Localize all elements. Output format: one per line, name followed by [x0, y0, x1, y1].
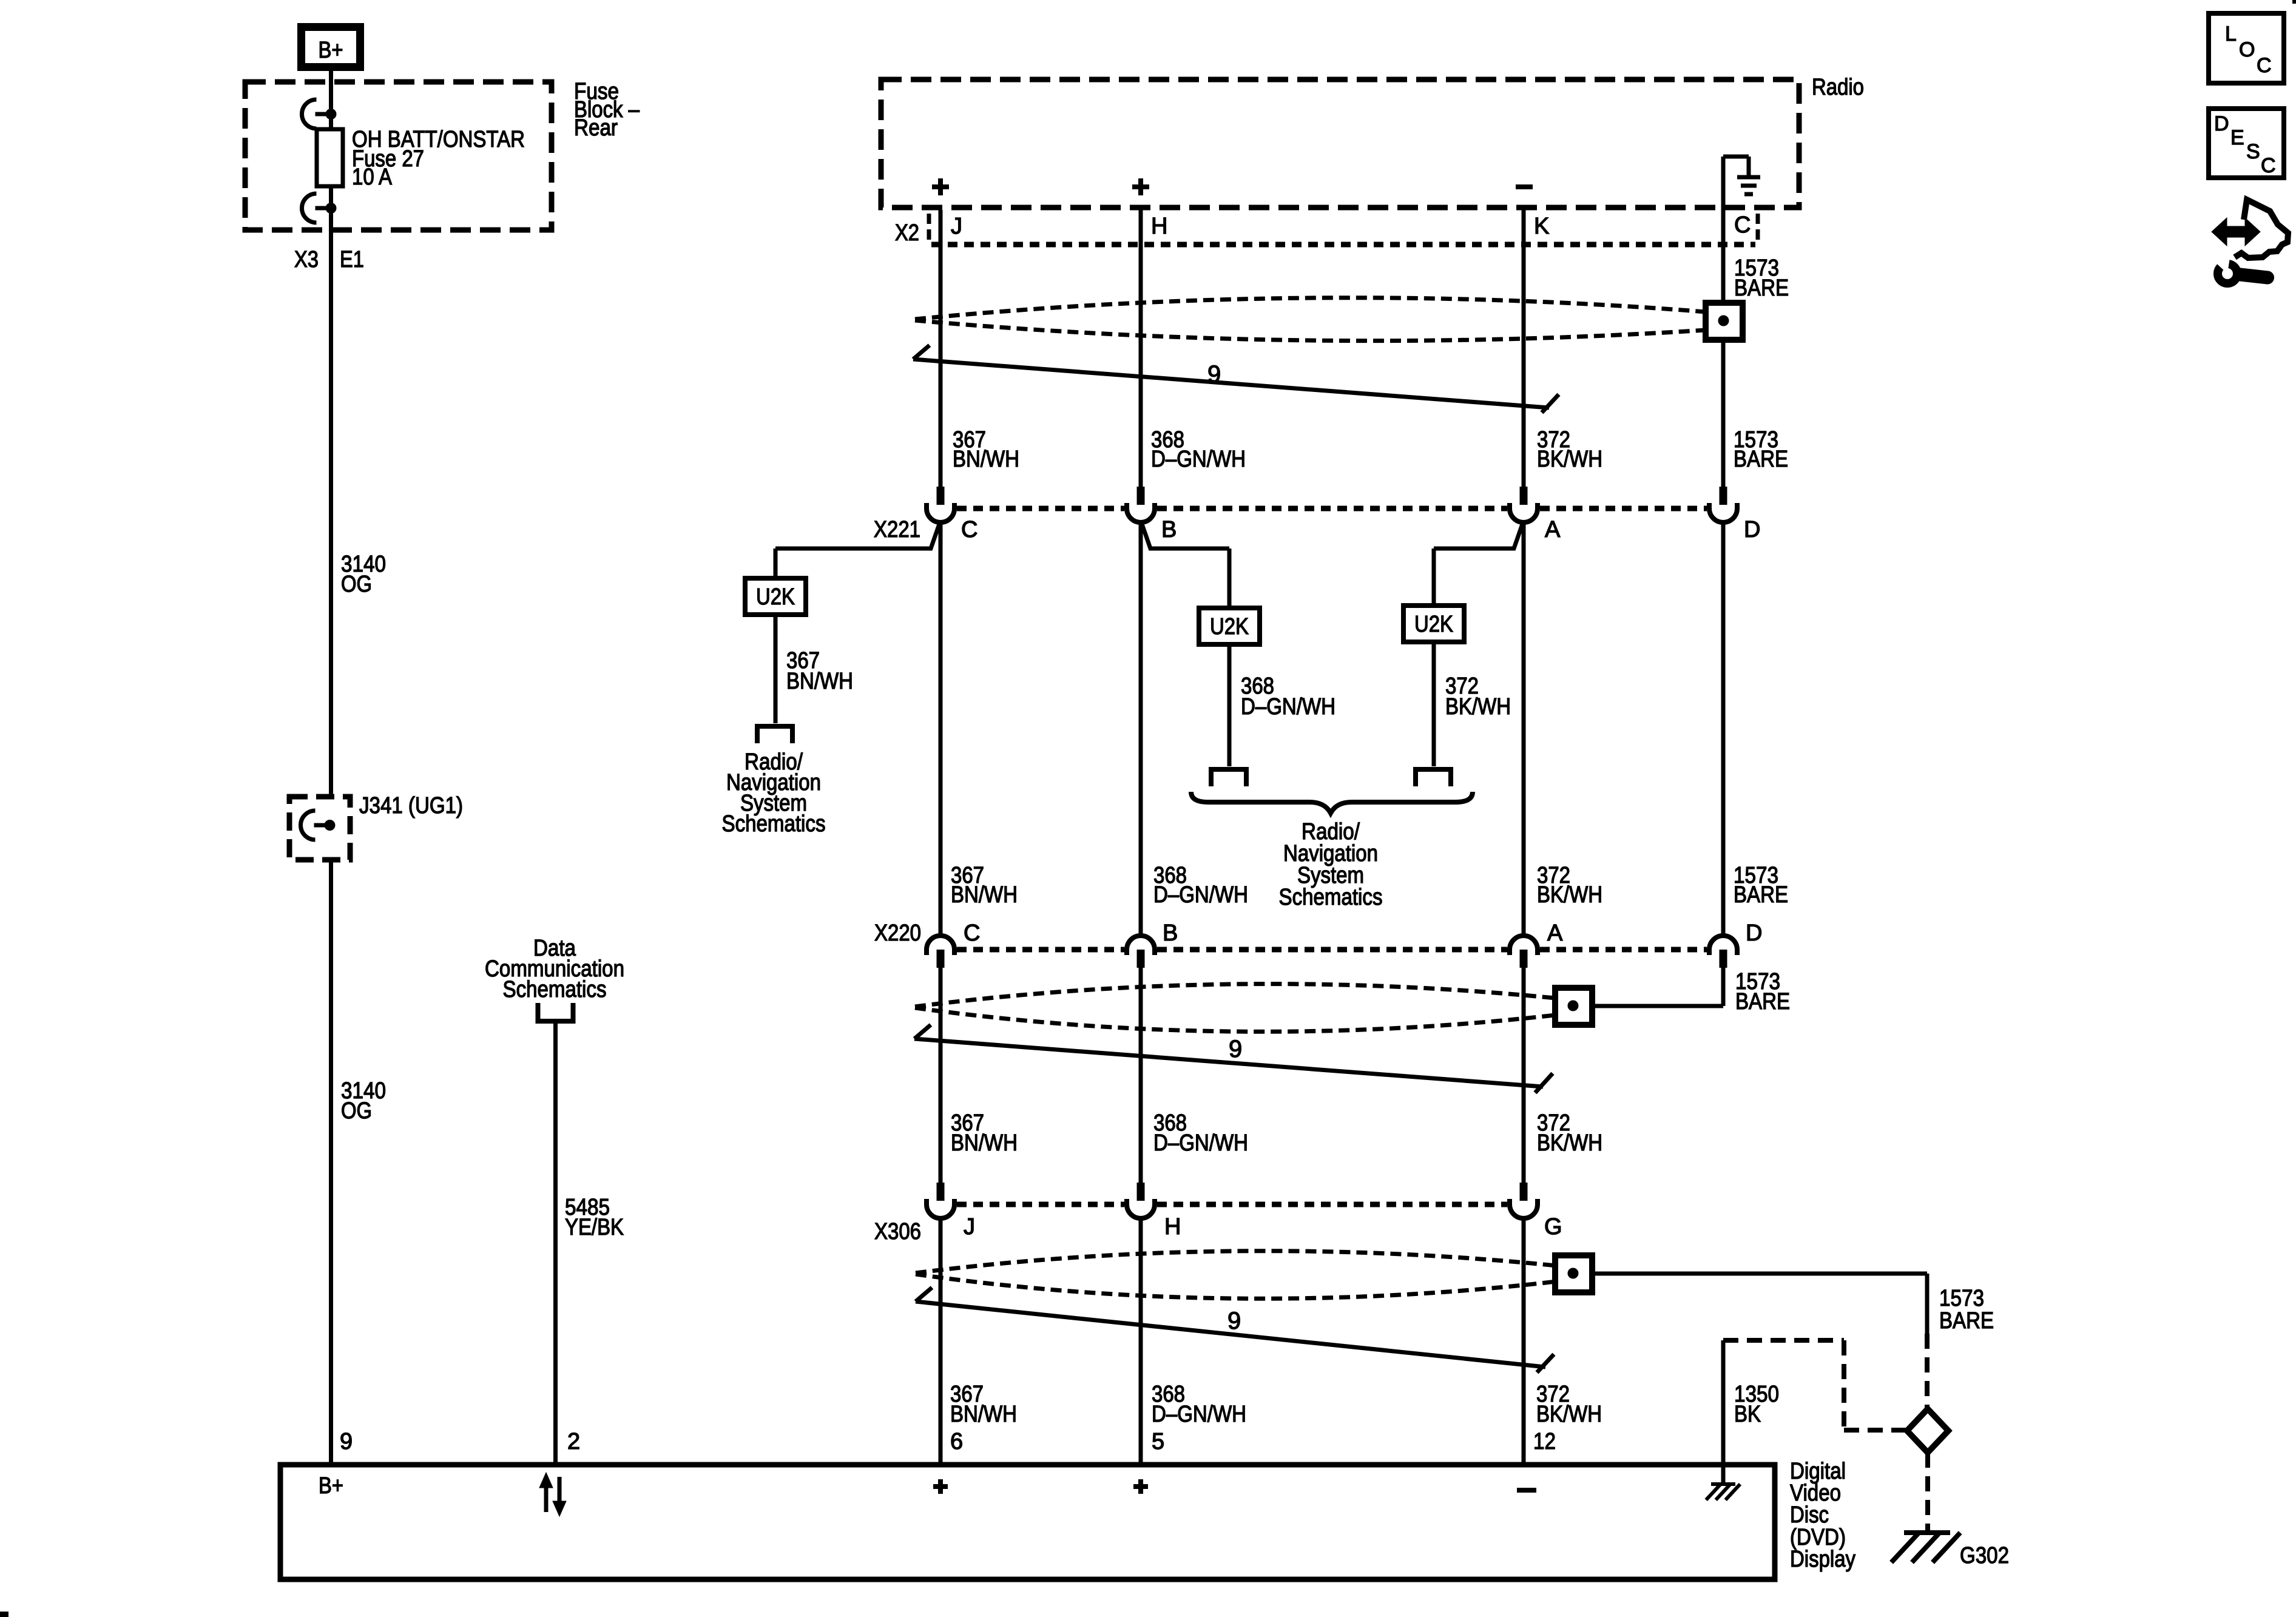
svg-text:B+: B+ [319, 38, 343, 63]
svg-text:BK/WH: BK/WH [1537, 882, 1602, 908]
svg-text:BK: BK [1734, 1402, 1761, 1427]
svg-text:OG: OG [341, 572, 372, 597]
svg-text:B: B [1163, 920, 1178, 946]
svg-text:1573: 1573 [1939, 1286, 1984, 1311]
svg-text:OG: OG [341, 1098, 372, 1124]
svg-text:C: C [964, 920, 980, 946]
svg-text:BN/WH: BN/WH [951, 1130, 1018, 1156]
svg-text:J: J [951, 214, 962, 239]
svg-text:B: B [1161, 517, 1177, 542]
svg-text:D: D [1746, 920, 1762, 946]
svg-text:B+: B+ [319, 1473, 343, 1499]
svg-text:9: 9 [340, 1429, 353, 1454]
svg-text:D–GN/WH: D–GN/WH [1152, 1402, 1246, 1427]
svg-text:BK/WH: BK/WH [1537, 1130, 1602, 1156]
svg-text:U2K: U2K [756, 584, 795, 610]
svg-text:BK/WH: BK/WH [1537, 447, 1602, 472]
svg-text:BARE: BARE [1734, 447, 1788, 472]
svg-text:E: E [2230, 126, 2244, 149]
svg-text:YE/BK: YE/BK [565, 1215, 624, 1240]
svg-text:X220: X220 [874, 920, 921, 946]
svg-text:E1: E1 [340, 247, 364, 272]
svg-text:6: 6 [950, 1429, 963, 1454]
svg-text:9: 9 [1229, 1036, 1242, 1062]
svg-text:O: O [2239, 38, 2255, 61]
svg-text:BARE: BARE [1939, 1308, 1994, 1334]
svg-text:BARE: BARE [1735, 989, 1790, 1014]
svg-text:BARE: BARE [1734, 275, 1789, 301]
svg-text:Schematics: Schematics [503, 977, 607, 1002]
svg-text:C: C [2261, 154, 2276, 177]
svg-text:Display: Display [1790, 1547, 1855, 1572]
svg-text:BK/WH: BK/WH [1536, 1402, 1602, 1427]
svg-text:X221: X221 [874, 517, 920, 542]
svg-text:G302: G302 [1960, 1543, 2009, 1568]
svg-text:BARE: BARE [1734, 882, 1788, 908]
svg-text:U2K: U2K [1414, 612, 1453, 637]
svg-text:A: A [1547, 920, 1563, 946]
svg-text:Schematics: Schematics [1279, 885, 1383, 910]
svg-text:A: A [1545, 517, 1561, 542]
svg-text:J: J [964, 1214, 975, 1240]
svg-text:C: C [1734, 212, 1751, 238]
svg-text:Rear: Rear [574, 115, 618, 141]
svg-text:C: C [2257, 54, 2272, 77]
svg-text:K: K [1534, 214, 1549, 239]
svg-text:5: 5 [1152, 1429, 1164, 1454]
svg-text:Disc: Disc [1790, 1502, 1829, 1528]
svg-text:H: H [1164, 1214, 1181, 1240]
svg-text:X306: X306 [874, 1219, 921, 1244]
svg-text:C: C [961, 517, 977, 542]
svg-text:2: 2 [567, 1429, 580, 1454]
svg-text:10 A: 10 A [352, 164, 393, 190]
svg-text:Radio: Radio [1812, 75, 1864, 100]
svg-text:J341 (UG1): J341 (UG1) [359, 793, 463, 819]
svg-text:H: H [1151, 214, 1167, 239]
svg-text:S: S [2246, 140, 2260, 163]
svg-text:D–GN/WH: D–GN/WH [1151, 447, 1246, 472]
svg-text:9: 9 [1207, 361, 1221, 388]
svg-text:BN/WH: BN/WH [950, 1402, 1017, 1427]
svg-text:U2K: U2K [1210, 614, 1249, 640]
svg-text:BN/WH: BN/WH [786, 669, 853, 694]
svg-text:BN/WH: BN/WH [951, 882, 1018, 908]
svg-text:9: 9 [1227, 1308, 1241, 1334]
svg-text:12: 12 [1533, 1429, 1556, 1454]
svg-text:D–GN/WH: D–GN/WH [1153, 882, 1248, 908]
svg-text:X2: X2 [895, 220, 919, 246]
svg-text:L: L [2225, 22, 2237, 46]
svg-text:G: G [1544, 1214, 1562, 1240]
svg-text:X3: X3 [294, 247, 319, 272]
svg-text:D: D [1744, 517, 1760, 542]
svg-text:BN/WH: BN/WH [953, 447, 1019, 472]
svg-text:D–GN/WH: D–GN/WH [1241, 694, 1335, 720]
svg-text:D: D [2214, 112, 2229, 135]
svg-text:BK/WH: BK/WH [1445, 694, 1511, 720]
svg-text:D–GN/WH: D–GN/WH [1153, 1130, 1248, 1156]
svg-text:Schematics: Schematics [722, 811, 826, 837]
